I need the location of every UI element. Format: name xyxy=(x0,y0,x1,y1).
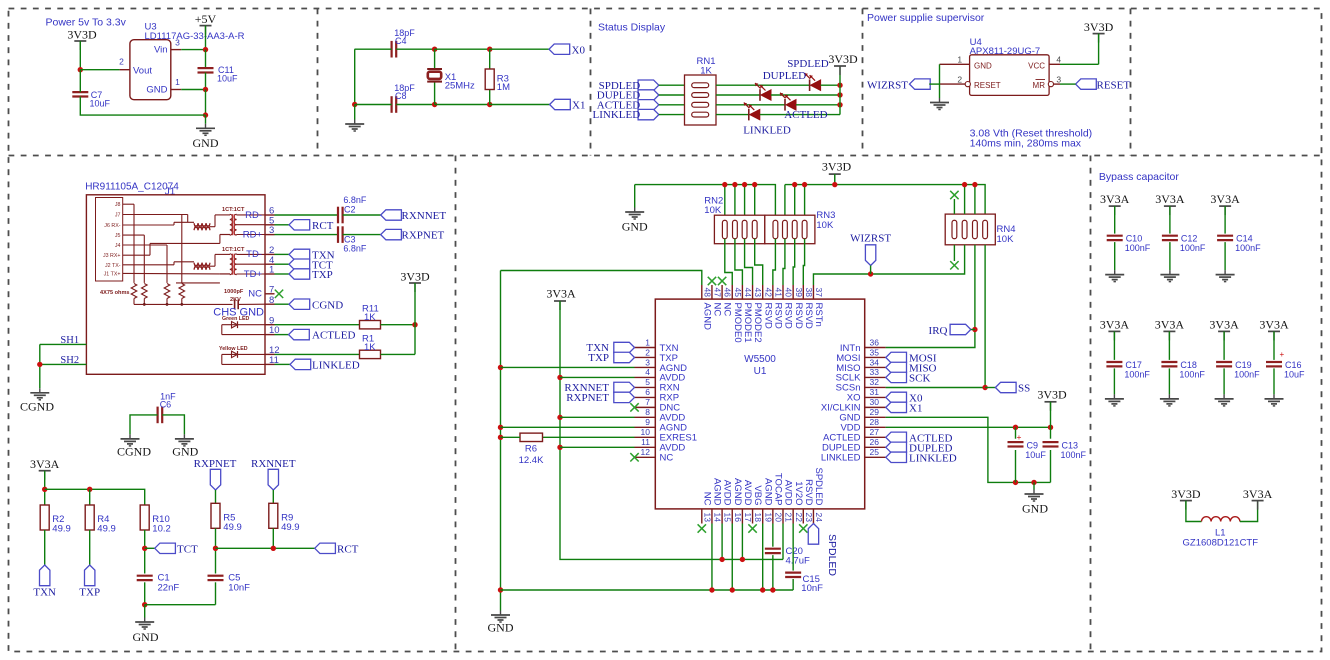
wire xyxy=(44,471,46,505)
J1 pin 9 xyxy=(265,315,275,326)
wire xyxy=(205,115,207,124)
wire xyxy=(771,94,840,96)
wire xyxy=(734,185,736,221)
U1 pin 14 AGND xyxy=(712,478,723,523)
svg-text:1CT:1CT: 1CT:1CT xyxy=(222,207,245,213)
no-connect U1 pin46 xyxy=(718,277,726,285)
label ACTLED xyxy=(784,109,827,121)
svg-text:3V3D: 3V3D xyxy=(828,52,858,66)
jack resistor 75ohm #4 xyxy=(179,284,185,305)
wire xyxy=(634,185,636,208)
J1 pin 5 xyxy=(265,215,275,226)
U1 pin 41 RSVD xyxy=(772,285,783,329)
svg-text:TXP: TXP xyxy=(312,269,333,281)
global label RXNNET (U1) xyxy=(564,382,634,394)
wire xyxy=(275,324,360,326)
global label WIZRST (middle) xyxy=(850,233,891,266)
svg-text:RD-: RD- xyxy=(245,210,262,221)
svg-text:AVDD: AVDD xyxy=(783,480,794,506)
svg-text:RCT: RCT xyxy=(337,544,359,556)
wire AGND top xyxy=(501,271,702,286)
label Yellow LED xyxy=(219,346,248,352)
global label CGND xyxy=(289,299,343,311)
svg-text:10nF: 10nF xyxy=(228,583,250,594)
wire xyxy=(355,48,392,50)
svg-text:C16: C16 xyxy=(1285,360,1302,370)
svg-text:33: 33 xyxy=(870,367,880,377)
junction X0 R3 xyxy=(487,47,492,52)
junction C13 vdd xyxy=(1048,425,1053,430)
svg-text:TXP: TXP xyxy=(588,352,609,364)
power flag 3V3A (L1) xyxy=(1243,487,1273,510)
wire xyxy=(40,343,87,345)
capacitor C11 10uF xyxy=(198,65,239,84)
svg-text:49.9: 49.9 xyxy=(281,522,300,533)
U3 pin 1 GND xyxy=(171,77,181,89)
U1 pin 35 MOSI xyxy=(836,347,885,364)
svg-text:3V3A: 3V3A xyxy=(1155,317,1185,331)
wire xyxy=(343,234,381,236)
svg-text:1M: 1M xyxy=(497,82,510,93)
U1 pin 10 EXRES1 xyxy=(635,427,698,444)
svg-text:2: 2 xyxy=(957,74,962,84)
resistor R3 1M xyxy=(485,69,510,93)
jack wire to pin8 xyxy=(238,303,265,305)
wire xyxy=(181,89,205,91)
J1 pin 11 xyxy=(265,355,279,366)
svg-text:RSVD: RSVD xyxy=(783,303,794,330)
wire xyxy=(784,185,786,221)
wire xyxy=(782,524,784,560)
svg-text:1: 1 xyxy=(645,337,650,347)
svg-text:7: 7 xyxy=(645,397,650,407)
global label TCT (jack) xyxy=(289,259,333,271)
U1 pin 37 RSTn xyxy=(813,285,824,327)
capacitor C3 6.8nF xyxy=(338,226,367,253)
capacitor C9 10uF xyxy=(1008,432,1047,460)
svg-text:4: 4 xyxy=(1056,55,1061,65)
svg-text:3V3D: 3V3D xyxy=(1171,487,1201,501)
svg-text:100nF: 100nF xyxy=(1235,243,1261,253)
wire xyxy=(215,528,217,573)
junction node 3V3D xyxy=(78,67,83,72)
junction p14 AGND xyxy=(709,587,714,592)
capacitor C2 6.8nF xyxy=(338,195,367,223)
wire xyxy=(796,104,840,106)
wire xyxy=(144,605,146,618)
no-connect U1 pin13 xyxy=(698,524,706,532)
J1 pin 1 xyxy=(265,265,275,276)
wire xyxy=(435,104,490,106)
global label TXP (U1) xyxy=(588,352,634,364)
global label DUPLED xyxy=(597,90,659,102)
svg-text:TOCAP: TOCAP xyxy=(772,473,783,506)
U1 pin 19 AGND xyxy=(762,478,773,523)
svg-text:3V3A: 3V3A xyxy=(1259,317,1289,331)
wire AGND vertical xyxy=(500,271,502,611)
svg-text:AVDD: AVDD xyxy=(742,480,753,506)
global label ACTLED xyxy=(597,99,659,111)
svg-text:28: 28 xyxy=(870,417,880,427)
svg-text:RXPNET: RXPNET xyxy=(566,392,609,404)
note Power supplie supervisor xyxy=(867,12,985,24)
svg-text:NC: NC xyxy=(712,303,723,317)
resistor network RN4 10K xyxy=(945,214,1015,245)
wire xyxy=(501,366,635,368)
svg-text:GND: GND xyxy=(488,621,514,635)
ground (C18) xyxy=(1160,394,1179,406)
ground GND xyxy=(193,124,219,150)
jack junction xyxy=(166,303,169,306)
wire xyxy=(89,530,91,565)
svg-text:Bypass capacitor: Bypass capacitor xyxy=(1099,171,1179,183)
global label RCT (jack) xyxy=(289,220,334,232)
ground (C10) xyxy=(1105,270,1124,282)
svg-text:PMODE1: PMODE1 xyxy=(742,303,753,343)
LED D3 ACTLED xyxy=(780,93,796,111)
svg-text:J5: J5 xyxy=(115,233,121,239)
U1 pin 48 AGND xyxy=(701,285,712,330)
svg-text:LINKLED: LINKLED xyxy=(909,452,957,464)
wire RN2 to PMODE xyxy=(755,239,763,285)
global label RESET xyxy=(1076,79,1131,91)
wire xyxy=(1060,63,1099,65)
svg-text:X0: X0 xyxy=(572,44,586,56)
svg-text:3V3D: 3V3D xyxy=(400,269,430,283)
svg-text:RXNNET: RXNNET xyxy=(251,458,296,470)
svg-text:39: 39 xyxy=(794,288,804,298)
svg-text:VCC: VCC xyxy=(1028,61,1045,70)
junction SH CGND xyxy=(37,362,42,367)
capacitor C5 10nF xyxy=(208,573,251,594)
svg-text:48: 48 xyxy=(702,288,712,298)
power flag 3V3D (status) xyxy=(828,52,858,75)
U4 pin 2 RESET xyxy=(940,74,971,86)
wire RN2 to PMODE xyxy=(735,239,743,285)
wire xyxy=(1114,206,1116,234)
wire xyxy=(821,84,840,86)
svg-text:1K: 1K xyxy=(700,66,712,77)
capacitor C18 100nF xyxy=(1161,360,1205,380)
svg-text:C10: C10 xyxy=(1126,234,1143,244)
wire RN2 to PMODE xyxy=(745,239,753,285)
wire xyxy=(1033,482,1035,489)
svg-text:CGND: CGND xyxy=(117,445,151,459)
svg-text:46: 46 xyxy=(723,288,733,298)
note Bypass capacitor xyxy=(1099,171,1179,183)
svg-text:C4: C4 xyxy=(395,36,407,46)
svg-text:TD-: TD- xyxy=(246,249,262,260)
svg-text:TXN: TXN xyxy=(33,587,56,599)
ground (C12) xyxy=(1160,270,1179,282)
svg-text:34: 34 xyxy=(870,357,880,367)
svg-text:10uF: 10uF xyxy=(90,99,111,109)
svg-text:RSVD: RSVD xyxy=(803,479,814,506)
capacitor C14 100nF xyxy=(1217,234,1261,254)
regulator U3 LD1117AG-33-AA3-A-R xyxy=(130,22,245,100)
svg-text:U1: U1 xyxy=(754,366,767,377)
wire xyxy=(1169,206,1171,234)
svg-text:1: 1 xyxy=(957,55,962,65)
U1 pin 18 VBG xyxy=(752,485,763,523)
capacitor C16 10uF xyxy=(1266,350,1305,379)
wire xyxy=(275,224,290,226)
wire xyxy=(1113,331,1115,360)
svg-text:6: 6 xyxy=(645,387,650,397)
U4 pin 1 GND xyxy=(940,55,970,65)
wire xyxy=(870,266,872,275)
U1 pin 30 XI/CLKIN xyxy=(821,397,886,414)
junction TCT xyxy=(142,546,147,551)
wire xyxy=(489,90,491,105)
J1 pin 8 xyxy=(265,295,275,306)
svg-text:J6 RX-: J6 RX- xyxy=(104,223,120,229)
no-connect U1 pin12 xyxy=(630,453,638,461)
ground (C19) xyxy=(1215,394,1234,406)
wire xyxy=(1050,402,1052,428)
wire xyxy=(741,524,743,560)
U1 pin 16 AGND xyxy=(732,478,743,523)
wire xyxy=(792,579,794,590)
wire xyxy=(275,234,339,236)
junction LED 3V3D rail xyxy=(837,83,842,88)
green LED loop xyxy=(222,325,265,335)
wire RN3 to RSVD xyxy=(793,239,795,285)
wire xyxy=(1273,331,1275,360)
svg-text:ACTLED: ACTLED xyxy=(312,330,355,342)
svg-text:Power supplie supervisor: Power supplie supervisor xyxy=(867,12,985,24)
wire xyxy=(145,547,155,549)
global label LINKLED (U1) xyxy=(886,452,957,464)
wire xyxy=(804,185,806,221)
no-connect U1 pin47 xyxy=(708,277,716,285)
jack green LED xyxy=(232,321,238,328)
svg-text:C8: C8 xyxy=(395,91,407,101)
LED D2 DUPLED xyxy=(755,83,771,101)
label 4X75 ohms xyxy=(100,290,130,296)
svg-text:3V3D: 3V3D xyxy=(1084,20,1114,34)
wire xyxy=(1050,450,1052,482)
svg-text:GND: GND xyxy=(172,445,198,459)
wire xyxy=(1168,368,1170,394)
svg-text:100nF: 100nF xyxy=(1234,369,1260,379)
J1 pin 4 xyxy=(265,255,275,266)
svg-text:WIZRST: WIZRST xyxy=(850,233,891,245)
global label SCK xyxy=(886,372,931,384)
wire xyxy=(659,114,685,116)
svg-text:SPDLED: SPDLED xyxy=(826,534,838,576)
resistor R2 49.9 xyxy=(40,505,71,535)
power flag 3V3D (supervisor) xyxy=(1084,20,1114,43)
global label LINKLED (jack) xyxy=(290,359,360,371)
svg-text:AGND: AGND xyxy=(762,478,773,506)
svg-text:49.9: 49.9 xyxy=(223,522,242,533)
global label ACTLED (U1) xyxy=(886,432,953,444)
junction node +5V xyxy=(203,47,208,52)
svg-text:GND: GND xyxy=(622,220,648,234)
ground GND (middle bottom) xyxy=(488,611,514,635)
jack internal wires xyxy=(123,204,230,283)
svg-text:SPDLED: SPDLED xyxy=(813,467,824,505)
ground (crystal) xyxy=(345,120,364,132)
note Status Display xyxy=(598,22,666,34)
svg-text:27: 27 xyxy=(870,427,880,437)
svg-text:C14: C14 xyxy=(1236,234,1253,244)
svg-text:10: 10 xyxy=(641,427,651,437)
U1 pin 31 XO xyxy=(847,387,886,404)
svg-text:17: 17 xyxy=(743,513,753,523)
wire xyxy=(964,185,966,215)
svg-text:1K: 1K xyxy=(364,342,376,353)
junction RN2 pulldown xyxy=(722,182,727,187)
svg-text:RSVD: RSVD xyxy=(772,303,783,330)
wire xyxy=(80,97,205,116)
global label TCT xyxy=(155,543,198,556)
svg-text:3V3A: 3V3A xyxy=(1155,192,1185,206)
svg-text:3V3A: 3V3A xyxy=(1209,317,1239,331)
U1 pin 21 AVDD xyxy=(783,480,794,524)
resistor network RN3 10K xyxy=(765,210,836,244)
U1 pin 39 RSVD xyxy=(793,285,804,329)
global label ACTLED (jack) xyxy=(289,329,356,341)
svg-text:3V3D: 3V3D xyxy=(822,160,852,174)
svg-text:100nF: 100nF xyxy=(1125,243,1151,253)
global label IRQ xyxy=(929,324,971,337)
svg-text:RXPNET: RXPNET xyxy=(402,230,445,242)
crystal X1 25MHz xyxy=(427,69,475,91)
svg-text:6.8nF: 6.8nF xyxy=(343,244,367,254)
capacitor C8 18pF xyxy=(392,83,416,113)
svg-text:R6: R6 xyxy=(525,444,537,455)
wire xyxy=(272,528,274,548)
wire AGND rail2 xyxy=(501,589,794,591)
junction p17 AVDD xyxy=(740,557,745,562)
svg-text:10K: 10K xyxy=(997,234,1015,245)
jack junction xyxy=(143,303,146,306)
svg-text:49.9: 49.9 xyxy=(97,524,116,535)
svg-text:RD+: RD+ xyxy=(243,229,263,240)
wire xyxy=(971,329,975,331)
label 1CT:1CT (RX) xyxy=(222,207,245,213)
svg-text:23: 23 xyxy=(804,513,814,523)
junction p15 AVDD xyxy=(719,557,724,562)
wire xyxy=(953,199,955,214)
svg-text:RSVD: RSVD xyxy=(793,303,804,330)
svg-text:1K: 1K xyxy=(364,312,376,323)
wire xyxy=(659,104,685,106)
svg-text:20: 20 xyxy=(773,513,783,523)
wire xyxy=(396,104,434,106)
U1 pin 8 AVDD xyxy=(635,407,686,424)
wire xyxy=(939,64,941,98)
U1 pin 45 PMODE0 xyxy=(732,285,743,343)
wire xyxy=(80,69,119,71)
junction 3V3A rail xyxy=(42,487,47,492)
svg-text:AGND: AGND xyxy=(732,478,743,506)
svg-text:AVDD: AVDD xyxy=(722,480,733,506)
transformer T-TX choke xyxy=(194,263,210,270)
wire xyxy=(45,489,145,505)
global label DUPLED (U1) xyxy=(886,442,953,454)
wire xyxy=(711,524,713,591)
note reset threshold xyxy=(970,128,1093,150)
U1 pin 47 NC xyxy=(712,285,723,316)
svg-text:40: 40 xyxy=(784,288,794,298)
svg-text:+5V: +5V xyxy=(195,12,217,26)
svg-text:AGND: AGND xyxy=(712,478,723,506)
wire xyxy=(39,344,41,388)
wire xyxy=(1224,242,1226,270)
junction X1 node xyxy=(432,102,437,107)
svg-text:TCT: TCT xyxy=(177,544,198,556)
wire INTn net xyxy=(886,245,975,348)
wire xyxy=(760,114,840,116)
svg-text:4X75 ohms: 4X75 ohms xyxy=(100,290,130,296)
jack junction xyxy=(180,303,183,306)
svg-text:3V3A: 3V3A xyxy=(1210,192,1240,206)
svg-text:+: + xyxy=(1017,432,1022,442)
junction IRQ xyxy=(972,327,977,332)
power flag 3V3A (C12) xyxy=(1155,192,1185,215)
junction AGND xyxy=(498,425,503,430)
global label RXPNET (bottom) xyxy=(194,458,237,490)
svg-text:15: 15 xyxy=(723,513,733,523)
junction p16 AGND xyxy=(730,587,735,592)
svg-text:31: 31 xyxy=(870,387,880,397)
power flag 3V3D (L1) xyxy=(1171,487,1201,510)
wire xyxy=(1240,501,1258,522)
junction RCT R9 xyxy=(271,546,276,551)
wire xyxy=(659,94,685,96)
svg-text:43: 43 xyxy=(753,288,763,298)
svg-text:9: 9 xyxy=(645,417,650,427)
capacitor C4 18pF xyxy=(392,28,416,58)
svg-text:3: 3 xyxy=(1056,74,1061,84)
jack yellow LED xyxy=(232,351,238,358)
J1 pin 10 xyxy=(265,325,280,336)
wire xyxy=(205,90,207,116)
wire xyxy=(560,376,635,378)
svg-text:3V3D: 3V3D xyxy=(67,28,97,42)
global label MISO xyxy=(886,362,937,374)
wire xyxy=(834,174,836,185)
svg-text:J2 TX-: J2 TX- xyxy=(105,263,121,269)
svg-text:10uF: 10uF xyxy=(1025,450,1046,460)
svg-text:4.7uF: 4.7uF xyxy=(786,556,810,567)
junction R4 top xyxy=(87,487,92,492)
U3 pin 2 Vout xyxy=(119,57,130,70)
svg-text:10K: 10K xyxy=(704,205,722,216)
ground CGND (left) xyxy=(20,388,54,413)
svg-text:AGND: AGND xyxy=(701,303,712,331)
junction RN2 pulldown xyxy=(752,182,757,187)
svg-text:NC: NC xyxy=(722,303,733,317)
wire xyxy=(434,82,436,105)
resistor R1 1K xyxy=(360,334,381,359)
svg-text:C13: C13 xyxy=(1062,441,1079,451)
label SPDLED xyxy=(787,58,829,70)
svg-text:Green LED: Green LED xyxy=(222,316,250,322)
wire xyxy=(215,582,217,604)
junction RN4 pullup xyxy=(962,182,967,187)
wire xyxy=(985,387,995,389)
junction LED 3V3D rail xyxy=(837,92,842,97)
capacitor C7 10uF xyxy=(72,90,110,109)
wire xyxy=(354,49,356,104)
U1 pin 25 LINKLED xyxy=(821,447,886,464)
wire xyxy=(794,185,796,221)
wire xyxy=(414,283,416,354)
